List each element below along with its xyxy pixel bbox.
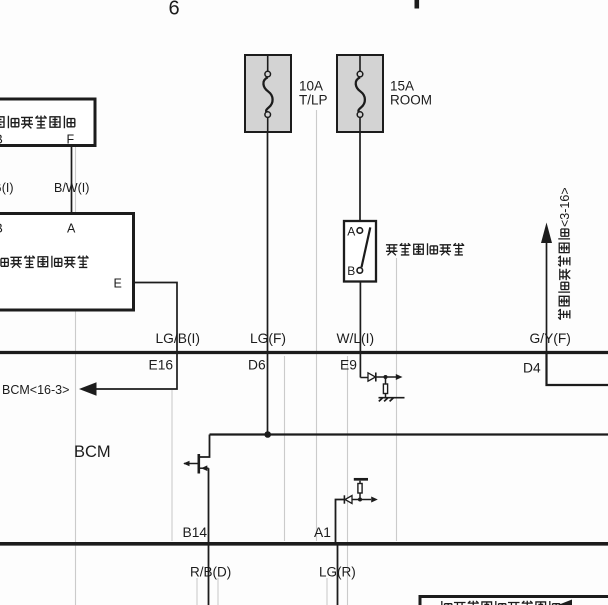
svg-text:6: 6 — [169, 0, 180, 20]
ground (chassis) symbol — [379, 398, 405, 402]
wire (faint grid line x=327 bottom) — [326, 578, 328, 605]
svg-text:F: F — [67, 133, 75, 147]
svg-text:E9: E9 — [340, 358, 357, 373]
svg-text:A: A — [347, 225, 355, 239]
wire (faint grid line x=284.5) — [284, 356, 286, 541]
transistor Q1 (PNP) — [183, 435, 209, 474]
label inside bottom box (hanzi, cut) — [442, 601, 560, 605]
svg-text:ROOM: ROOM — [390, 92, 432, 107]
wire (faint grid line x=347.5) — [347, 356, 349, 605]
svg-text:B: B — [0, 222, 3, 236]
svg-text:T/LP: T/LP — [299, 92, 328, 107]
label S1 name (hanzi) — [0, 116, 75, 129]
wire B/W(I) from S1 pin F to S2 pin A — [71, 147, 73, 214]
connector box bottom right (cut off) — [420, 597, 608, 605]
arrow inside bottom box — [558, 600, 572, 605]
wire LG/B(I) from S2 pin E to BCM pin E16 — [135, 283, 177, 353]
svg-text:G/Y(F): G/Y(F) — [530, 331, 571, 346]
svg-text:A: A — [67, 222, 76, 236]
svg-text:E16: E16 — [149, 358, 174, 373]
wire from pin A1 up into BCM — [336, 500, 345, 543]
svg-text:B: B — [347, 264, 355, 278]
label top edge mark — [415, 0, 420, 9]
wire (faint grid line x=75.5) — [75, 147, 77, 605]
wire internal BCM horizontal to right edge — [210, 433, 608, 435]
wire with right arrow at A1 node — [352, 497, 378, 503]
wire (faint grid line x=172) — [171, 390, 173, 541]
label engine control unit <3-16> (vertical hanzi) — [558, 187, 572, 319]
svg-text:10A: 10A — [299, 78, 323, 93]
svg-text:E: E — [114, 277, 122, 291]
wire LG(F) from fuse F1 through BCM pin D6 to node — [267, 131, 269, 435]
svg-text:B: B — [0, 133, 3, 147]
node junction dot at A1 branch — [358, 498, 362, 502]
power rail T-bar above R2 — [354, 478, 368, 481]
svg-text:LG(F): LG(F) — [250, 331, 286, 346]
svg-text:<3-16>: <3-16> — [558, 187, 572, 227]
wire from pin D4 to right edge — [547, 354, 608, 385]
svg-text:G(I): G(I) — [0, 181, 14, 195]
wire (faint grid line x=396.5) — [396, 258, 398, 541]
wire (faint grid line x=218 bottom) — [217, 578, 219, 605]
fuse F2 15A ROOM — [337, 55, 383, 132]
svg-text:W/L(I): W/L(I) — [337, 331, 375, 346]
node junction dot at E9 branch — [384, 375, 388, 379]
wire from Q1 emitter to pin B14 — [208, 468, 210, 542]
svg-text:A1: A1 — [314, 525, 331, 540]
node junction dot LG(F) branch — [264, 431, 271, 438]
wire W/L(I) from S3 pin B to BCM pin E9 — [359, 281, 361, 378]
label S3 name key reminder switch (hanzi) — [386, 243, 464, 255]
wire (faint grid line x=316.5) — [316, 110, 318, 541]
svg-text:D6: D6 — [248, 358, 266, 373]
diode D2 (pointing left) at A1 branch — [344, 495, 352, 503]
label S2 name (hanzi) — [0, 256, 89, 268]
resistor R1 below E9 node — [383, 377, 387, 398]
svg-text:D4: D4 — [523, 361, 541, 376]
svg-text:15A: 15A — [390, 78, 414, 93]
svg-text:BCM: BCM — [74, 443, 111, 461]
svg-text:LG/B(I): LG/B(I) — [156, 331, 200, 346]
wire from fuse F2 to S3 — [359, 131, 361, 221]
wire BCM top bus line — [0, 351, 608, 354]
switch S1 small-lamp dimmer switch box — [0, 99, 95, 146]
wire to BCM<16-3> with left arrow — [79, 354, 177, 396]
wire R/B(D) below pin B14 — [208, 545, 210, 605]
wire (faint grid line x=197 bottom) — [196, 578, 198, 605]
wire BCM bottom bus line — [0, 542, 608, 546]
svg-text:B14: B14 — [183, 525, 208, 540]
switch S2 headlamp leveling switch box — [0, 214, 134, 311]
wire LG(R) below pin A1 — [337, 545, 339, 605]
svg-text:BCM<16-3>: BCM<16-3> — [2, 383, 69, 397]
switch S3 key reminder switch — [344, 221, 376, 282]
resistor R2 above A1 node — [358, 481, 362, 500]
svg-text:LG(R): LG(R) — [319, 565, 356, 580]
svg-text:B/W(I): B/W(I) — [54, 181, 89, 195]
wire G/Y(F) to engine control unit with up arrow — [541, 223, 552, 353]
fuse F1 10A T/LP — [245, 55, 291, 132]
svg-text:R/B(D): R/B(D) — [190, 565, 231, 580]
diode D at pin E9 — [360, 373, 375, 382]
wire with right arrow at E9 node — [376, 374, 403, 380]
